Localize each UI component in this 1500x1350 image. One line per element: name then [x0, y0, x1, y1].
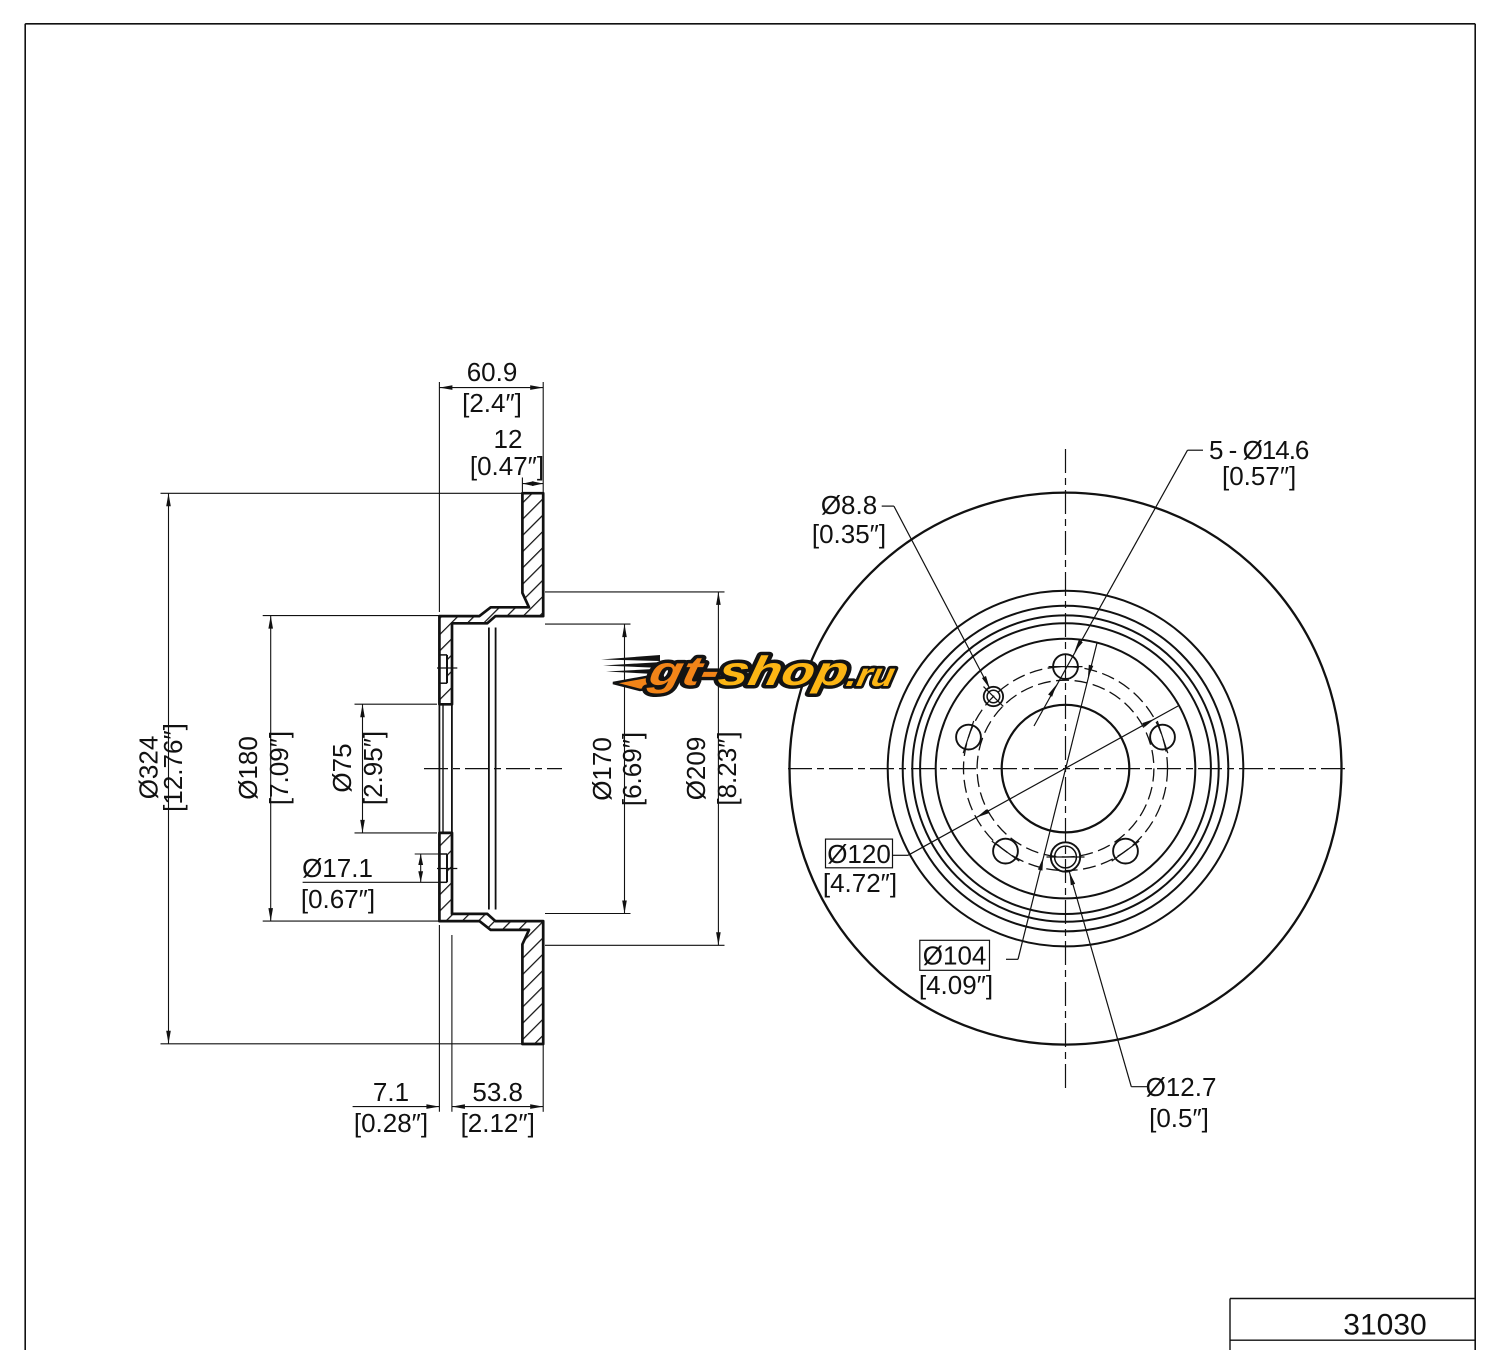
hub face circle	[936, 639, 1196, 899]
svg-text:31030: 31030	[1343, 1309, 1426, 1342]
disc cross-section lower half (hatched)	[439, 833, 543, 1044]
svg-text:Ø12.7: Ø12.7	[1146, 1072, 1217, 1102]
friction surface inner circle D209	[888, 591, 1244, 947]
svg-text:53.8: 53.8	[472, 1077, 523, 1107]
dim D180 extension lines	[263, 615, 479, 617]
dim 7.1 line	[353, 1106, 440, 1108]
dim D75 line + arrows	[362, 704, 364, 833]
watermark logo gt-shop.ru	[601, 647, 900, 693]
svg-text:Ø17.1: Ø17.1	[302, 853, 373, 883]
set-screw hole D8.8 at 135deg	[984, 687, 1003, 706]
label D120 boxed	[826, 839, 893, 868]
dim 12 arrows	[522, 483, 543, 485]
svg-text:[0.67″]: [0.67″]	[301, 884, 375, 914]
bolt circle D120 (dashed)	[964, 667, 1168, 871]
circle D104 (dashed)	[977, 680, 1154, 857]
leader 5-D14.6	[1188, 449, 1204, 451]
dim 53.8 line	[452, 1106, 543, 1108]
svg-text:Ø104: Ø104	[923, 941, 987, 971]
dim D170 line + arrows	[624, 624, 626, 913]
upper wall bolt-hole cutout	[439, 654, 447, 656]
leader D8.8	[882, 505, 894, 507]
leader D104	[1006, 958, 1018, 960]
svg-text:[8.23″]: [8.23″]	[712, 731, 742, 805]
lower wall bolt-hole cutout	[439, 853, 447, 855]
hole D12.7 at 270deg on D104	[1051, 842, 1080, 871]
bolt hole centerline ticks	[437, 667, 457, 669]
svg-text:12: 12	[494, 424, 523, 454]
disc outer circle	[790, 493, 1342, 1045]
dim 12 extension line	[521, 478, 523, 494]
svg-text:[4.09″]: [4.09″]	[919, 970, 993, 1000]
svg-text:Ø120: Ø120	[827, 839, 891, 869]
svg-text:Ø209: Ø209	[681, 737, 711, 801]
front view centerlines	[1065, 449, 1067, 1089]
bolt hole D14.6 at 18deg	[1150, 725, 1175, 750]
svg-text:[0.57″]: [0.57″]	[1222, 461, 1296, 491]
dim D209 line + arrows	[717, 592, 719, 945]
svg-text:Ø8.8: Ø8.8	[821, 490, 877, 520]
leader D120 (through center)	[893, 854, 909, 856]
hat circle D180	[912, 615, 1218, 921]
svg-text:[2.12″]: [2.12″]	[461, 1108, 535, 1138]
svg-text:[0.35″]: [0.35″]	[812, 519, 886, 549]
svg-text:60.9: 60.9	[467, 357, 518, 387]
svg-text:7.1: 7.1	[373, 1077, 409, 1107]
svg-text:.ru: .ru	[844, 657, 899, 694]
leader D12.7	[1131, 1086, 1148, 1088]
dim D324 extension lines	[161, 492, 523, 494]
label D104 boxed	[920, 940, 990, 970]
dim D75 extension lines	[355, 703, 438, 705]
dim D170 extension lines	[545, 623, 631, 625]
center bore D75	[1002, 705, 1130, 833]
svg-text:[4.72″]: [4.72″]	[823, 868, 897, 898]
dim D324 line + arrows	[168, 493, 170, 1044]
svg-text:[0.47″]: [0.47″]	[470, 451, 544, 481]
svg-text:Ø180: Ø180	[233, 736, 263, 800]
bolt hole D14.6 at 90deg	[1053, 654, 1078, 679]
dim 60.9 line	[439, 387, 543, 389]
logo text	[644, 647, 900, 693]
hat cone silhouette lines	[488, 628, 490, 910]
svg-text:[0.5″]: [0.5″]	[1149, 1103, 1209, 1133]
logo speed lines	[601, 655, 660, 661]
svg-text:[6.69″]: [6.69″]	[617, 732, 647, 806]
hat circle D170	[920, 623, 1211, 914]
dim 60.9 extension lines	[438, 382, 440, 612]
dim 7.1/53.8 extension lines	[438, 925, 440, 1112]
title block	[1230, 1298, 1475, 1300]
svg-text:[12.76″]: [12.76″]	[158, 723, 188, 812]
disc cross-section upper half (hatched)	[439, 493, 543, 704]
svg-text:[2.95″]: [2.95″]	[358, 731, 388, 805]
bolt hole D14.6 at 234deg	[993, 839, 1018, 864]
svg-text:[2.4″]: [2.4″]	[462, 388, 522, 418]
svg-text:Ø170: Ø170	[587, 737, 617, 801]
hat outer circle	[903, 606, 1229, 932]
svg-text:gt-shop: gt-shop	[644, 647, 853, 693]
svg-text:[0.28″]: [0.28″]	[354, 1108, 428, 1138]
svg-text:Ø75: Ø75	[327, 743, 357, 792]
dim D180 line + arrows	[270, 616, 272, 922]
bolt hole D14.6 at 306deg	[1113, 839, 1138, 864]
bore silhouette lines	[438, 704, 440, 833]
svg-text:[7.09″]: [7.09″]	[264, 731, 294, 805]
bolt hole D14.6 at 162deg	[956, 725, 981, 750]
dim D17.1 ticks + leader	[415, 853, 439, 855]
dim D209 extension lines	[545, 591, 725, 593]
section centerline	[424, 768, 562, 770]
page border frame	[25, 23, 1475, 25]
